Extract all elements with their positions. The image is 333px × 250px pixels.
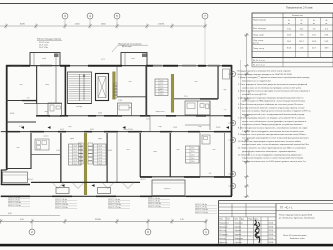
right rooms small walls [185, 124, 210, 126]
top dimension line [0, 25, 207, 27]
svg-text:10-1 1,3м: 10-1 1,3м [39, 47, 48, 49]
svg-text:6.3: 6.3 [325, 28, 328, 30]
wall x200 lower [199, 133, 201, 177]
svg-text:Гудкова: Гудкова [235, 226, 241, 228]
right exterior wall [231, 65, 233, 196]
svg-text:ТП - 4С + 1: ТП - 4С + 1 [280, 206, 293, 209]
svg-text:Количество: Количество [292, 15, 304, 17]
svg-text:03.04: 03.04 [269, 222, 273, 224]
svg-text:20.4: 20.4 [191, 148, 194, 150]
svg-text:прих: прих [98, 138, 102, 140]
svg-text:11.05: 11.05 [98, 113, 102, 115]
svg-text:21.4: 21.4 [191, 151, 194, 153]
svg-text:6. Систему отопления заменить: 6. Систему отопления заменить новой по о… [238, 106, 304, 109]
svg-text:кух: кух [224, 89, 227, 91]
fixtures column lower (bath stack) [79, 143, 84, 146]
svg-text:15.8: 15.8 [99, 160, 102, 162]
lower band walls [30, 133, 31, 169]
svg-text:кухня: кухня [44, 136, 49, 138]
svg-text:Площ. застр.: Площ. застр. [253, 48, 265, 50]
svg-text:ул. Элебесова, Тургенева, Туго: ул. Элебесова, Тургенева, Туголбаева [279, 218, 315, 220]
svg-text:Нач. отд: Нач. отд [219, 230, 226, 232]
svg-text:тамб: тамб [42, 58, 46, 60]
bath tub room center [118, 103, 132, 116]
svg-text:4.3: 4.3 [209, 173, 212, 175]
title block [218, 201, 220, 244]
svg-text:отдельных каналах. Вводно-расп: отдельных каналах. Вводно-распределит. у… [242, 123, 303, 126]
svg-text:Комплекс эскиз: Комплекс эскиз [290, 238, 304, 240]
svg-text:лифт.холл: лифт.холл [156, 110, 165, 113]
svg-text:Директор: Директор [219, 242, 227, 244]
svg-text:3. Замена кровли согласно фас: 3. Замена кровли согласно фасадам по уси… [238, 90, 310, 93]
svg-text:зал: зал [212, 149, 215, 151]
right upper rooms [174, 98, 218, 100]
svg-text:11.2: 11.2 [74, 148, 77, 150]
svg-text:1.494-23. Кухни оборудовать вы: 1.494-23. Кухни оборудовать вытяжными зо… [242, 131, 305, 133]
central rooms x117-147 [116, 66, 118, 96]
svg-text:зал: зал [176, 149, 179, 151]
svg-text:5. Плиты балконов усилить обо: 5. Плиты балконов усилить обоймами из ст… [238, 103, 304, 106]
svg-text:22.4: 22.4 [191, 154, 194, 156]
right bath cluster [185, 101, 210, 115]
svg-text:кор: кор [45, 111, 48, 113]
svg-text:зал: зал [126, 149, 129, 151]
sheet bottom border [0, 244, 333, 247]
svg-text:Н.контр: Н.контр [219, 238, 225, 240]
svg-text:6370: 6370 [20, 24, 26, 26]
svg-text:Б: Б [232, 138, 234, 142]
bottom main wall [1, 195, 232, 197]
svg-text:прих: прих [70, 138, 74, 140]
kitchen appliances lower-left [35, 139, 49, 150]
svg-text:12.8: 12.8 [99, 151, 102, 153]
svg-text:последующей штукатуркой по сет: последующей штукатуркой по сетке и окрас… [242, 137, 309, 140]
misc small black marks upper [66, 42, 69, 43]
balcony left [3, 172, 28, 183]
svg-text:13.2: 13.2 [74, 154, 77, 156]
svg-text:зал: зал [128, 81, 131, 83]
svg-text:комплектацию из ПВХ-профилей и: комплектацию из ПВХ-профилей и сталь) не… [242, 100, 306, 103]
svg-text:2.45: 2.45 [56, 150, 60, 152]
svg-text:8.91: 8.91 [325, 35, 329, 37]
svg-text:Реконструкция жилого дома №14: Реконструкция жилого дома №14 [279, 213, 313, 216]
hall x150-172 [149, 116, 151, 131]
wall y100 left room [6, 100, 37, 102]
svg-text:16.2: 16.2 [74, 163, 77, 165]
svg-text:11.45: 11.45 [312, 41, 317, 43]
svg-text:15.2: 15.2 [74, 160, 77, 162]
svg-text:77.5: 77.5 [300, 35, 304, 37]
svg-text:щитах; сети слаботочных систем: щитах; сети слаботочных систем (домофон,… [242, 120, 306, 123]
svg-text:10.1: 10.1 [312, 35, 316, 37]
axis circle 7 [202, 13, 208, 19]
table bottom rows [252, 58, 333, 63]
svg-text:лоджия: лоджия [164, 188, 171, 190]
svg-text:12.0: 12.0 [146, 119, 150, 121]
svg-text:12.05: 12.05 [216, 127, 221, 129]
axis circle 4 [87, 13, 93, 19]
svg-text:спал: спал [45, 84, 49, 86]
svg-text:Лист: Лист [234, 219, 238, 221]
svg-text:Площ. кварт.: Площ. кварт. [253, 34, 265, 36]
bottom axis circle 1 [203, 229, 209, 235]
bottom axis circle 2 [29, 229, 35, 235]
svg-text:11.9: 11.9 [184, 96, 187, 98]
porch box 2 [98, 188, 111, 194]
bottom wall left section [31, 181, 140, 183]
doc code cell [276, 203, 333, 205]
wall x117 lower [116, 133, 118, 182]
notes block [237, 71, 311, 163]
svg-text:2. Окна, фрамуги и балконные: 2. Окна, фрамуги и балконные двери из ме… [238, 83, 307, 86]
svg-text:40.1-4: 40.1-4 [27, 179, 32, 181]
svg-text:зал: зал [16, 147, 19, 149]
elevator shaft [96, 74, 109, 101]
wall x36 upper [36, 66, 37, 104]
left exterior wall [6, 65, 8, 170]
svg-text:тамбур: тамбур [76, 106, 82, 108]
svg-text:уровня шума, машинное помещени: уровня шума, машинное помещение - шумоиз… [242, 151, 297, 153]
svg-text:вводе квартальной сети с погод: вводе квартальной сети с погодозависимой… [242, 113, 305, 116]
svg-text:7.9: 7.9 [27, 98, 30, 100]
svg-text:Отметки относительные, за 0.00: Отметки относительные, за 0.000 принят у… [242, 161, 307, 163]
svg-text:2к: 2к [288, 20, 290, 22]
svg-text:17.0: 17.0 [160, 80, 163, 82]
svg-text:03.04: 03.04 [269, 238, 273, 240]
svg-text:вынести в штробы. Прибор учёта: вынести в штробы. Прибор учёта тепла уст… [242, 111, 311, 113]
wall y176 right [140, 176, 231, 178]
svg-text:17.4: 17.4 [160, 91, 163, 93]
svg-text:8.64: 8.64 [287, 48, 291, 50]
svg-text:17.5: 17.5 [160, 94, 163, 96]
porch box 1 [56, 188, 69, 194]
signatures scribble [254, 220, 260, 243]
svg-text:Субанов: Субанов [235, 242, 242, 244]
svg-text:ГИ отдела: ГИ отдела [219, 234, 227, 236]
svg-text:13.8: 13.8 [99, 154, 102, 156]
svg-text:Жил. площадь: Жил. площадь [253, 28, 266, 30]
svg-text:10.2: 10.2 [74, 145, 77, 147]
svg-text:7. Электропроводку заменить н: 7. Электропроводку заменить на медную с … [238, 116, 305, 119]
svg-text:спал: спал [153, 151, 157, 153]
svg-text:1. Двор и площадки (**) време: 1. Двор и площадки (**) временно выполня… [238, 77, 310, 79]
svg-text:10.8: 10.8 [99, 145, 102, 147]
svg-text:Копылова: Копылова [235, 222, 243, 224]
svg-text:Кв. 5х 1 на эт.: Кв. 5х 1 на эт. [253, 60, 265, 62]
svg-text:5,45: 5,45 [180, 219, 184, 221]
olive wall hall [171, 74, 174, 113]
svg-text:6,08: 6,08 [20, 219, 24, 221]
svg-text:пазогребневых плит, стены обли: пазогребневых плит, стены облицевать кер… [242, 143, 310, 146]
svg-text:21300: 21300 [95, 219, 102, 221]
svg-text:Общая площадь квартир приведен: Общая площадь квартир приведена по СНиП … [237, 74, 293, 76]
svg-text:9.41: 9.41 [325, 41, 329, 43]
svg-text:20.8: 20.8 [287, 35, 291, 37]
svg-text:кор: кор [159, 126, 162, 128]
svg-text:11. Лифты заменить на новые гр: 11. Лифты заменить на новые грузоподъёмн… [238, 147, 306, 150]
svg-text:10. Внутренние перегородки сан: 10. Внутренние перегородки санузлов выпо… [238, 140, 301, 143]
svg-text:5.08: 5.08 [173, 127, 177, 129]
svg-text:23.4: 23.4 [191, 158, 194, 160]
svg-text:Гудкова: Гудкова [235, 234, 241, 236]
olive wall near elevator [113, 72, 116, 100]
svg-text:В: В [232, 121, 234, 125]
wall x140 lower [140, 133, 141, 177]
svg-text:План 4-9 этажного дома: План 4-9 этажного дома [283, 235, 307, 237]
svg-text:14.8: 14.8 [99, 157, 102, 159]
svg-text:Док: Док [241, 219, 244, 221]
wall x55 upper [55, 66, 57, 103]
small bath upper-left [48, 103, 62, 117]
svg-text:отдельными входами согласно сх: отдельными входами согласно схеме благоу… [242, 157, 304, 160]
svg-text:2.98: 2.98 [118, 100, 122, 102]
vestibule room A [30, 53, 60, 66]
top exterior wall [6, 65, 232, 67]
sheet top border [0, 3, 333, 5]
wall x60 lower [60, 133, 61, 182]
area table grid 3 [94, 144, 107, 165]
svg-text:8. Вентиляционные каналы проч: 8. Вентиляционные каналы прочистить, ого… [238, 127, 307, 129]
svg-text:15.1: 15.1 [300, 28, 304, 30]
svg-text:105.7: 105.7 [299, 41, 304, 43]
svg-text:вместимостью на людей 2-9эт.: вместимостью на людей 2-9эт. [242, 80, 272, 83]
svg-text:8.02: 8.02 [90, 129, 94, 131]
svg-text:13470: 13470 [158, 24, 165, 26]
svg-text:кор: кор [69, 126, 72, 128]
svg-text:2б: 2б [300, 20, 302, 22]
svg-text:4.02: 4.02 [60, 129, 64, 131]
exploitation table [252, 13, 333, 58]
svg-text:03.04: 03.04 [269, 234, 273, 236]
right lower fixtures [202, 135, 210, 144]
svg-text:Подп: Подп [248, 219, 252, 221]
svg-text:24.4: 24.4 [191, 161, 194, 163]
svg-text:конс: конс [131, 58, 135, 60]
corridor north wall [6, 121, 36, 123]
area table grid 2 [69, 144, 82, 165]
axis circle 3 [62, 13, 68, 19]
svg-text:17.1: 17.1 [160, 83, 163, 85]
svg-text:16.06: 16.06 [10, 113, 15, 115]
wall y103 [24, 103, 62, 105]
svg-text:26.6: 26.6 [287, 41, 291, 43]
svg-text:объёме 9-ти этаж ДСК-10.: объёме 9-ти этаж ДСК-10. [242, 94, 267, 96]
svg-text:Гудкова: Гудкова [235, 230, 241, 232]
svg-text:Проверил: Проверил [219, 226, 227, 228]
svg-text:7.05: 7.05 [287, 28, 291, 30]
svg-text:кор: кор [129, 107, 132, 109]
svg-text:Néфедова: Néфедова [235, 237, 244, 240]
svg-text:11.8: 11.8 [99, 148, 102, 150]
stairwell [65, 66, 67, 116]
concierge room B [121, 53, 147, 66]
wall x225 lower [224, 133, 226, 177]
svg-text:12. Квартиры 1-го этажа оборуд: 12. Квартиры 1-го этажа оборудовать прик… [238, 154, 303, 156]
door swings bottom [52, 182, 58, 188]
right vertical dimension line [246, 33, 248, 198]
svg-text:03.04: 03.04 [269, 242, 273, 244]
svg-text:03.04: 03.04 [269, 230, 273, 232]
svg-text:4,90: 4,90 [8, 213, 12, 215]
svg-text:Площадь подсчитана обмером без: Площадь подсчитана обмером без учёта вну… [237, 71, 291, 73]
svg-text:зал: зал [19, 84, 22, 86]
left lower protrusion [1, 169, 7, 171]
svg-text:17.0: 17.0 [101, 59, 105, 61]
wall x170 lower [170, 133, 171, 177]
svg-text:Вход 17.06: Вход 17.06 [123, 129, 132, 131]
toilet symbol [206, 104, 209, 109]
svg-text:зал: зал [194, 81, 197, 83]
svg-text:38.9: 38.9 [325, 48, 329, 50]
svg-text:4. Двери входные в подъезд и: 4. Двери входные в подъезд и квартиры вы… [238, 96, 304, 99]
svg-text:кор: кор [199, 126, 202, 128]
svg-text:3.0: 3.0 [313, 28, 316, 30]
svg-text:6.06: 6.06 [19, 126, 23, 128]
svg-text:6.08: 6.08 [108, 150, 112, 152]
svg-text:40.1-2: 40.1-2 [140, 179, 145, 181]
svg-text:12.2: 12.2 [74, 151, 77, 153]
svg-text:3б: 3б [325, 20, 327, 22]
svg-text:3к: 3к [313, 20, 315, 22]
svg-text:Кв. 5х 2 на эт.: Кв. 5х 2 на эт. [253, 65, 265, 67]
svg-text:41.9: 41.9 [312, 48, 316, 50]
olive wall lower [84, 133, 87, 195]
bottom axis circle 6 [145, 229, 151, 235]
bottom dimension line small [0, 214, 60, 216]
svg-text:(кв. м ): (кв. м ) [253, 43, 259, 45]
svg-text:16.8: 16.8 [99, 163, 102, 165]
svg-text:1.05: 1.05 [300, 48, 304, 50]
corridor south wall [1, 131, 232, 133]
loggia center-right [152, 180, 185, 196]
svg-text:Б: Б [232, 172, 234, 176]
svg-text:Кол: Кол [227, 219, 230, 221]
svg-text:Показатели кв. 2-9 этаж: Показатели кв. 2-9 этаж [286, 7, 313, 10]
vent blocks column [114, 83, 117, 86]
svg-text:17.2: 17.2 [160, 86, 163, 88]
svg-text:с.у: с.у [224, 109, 226, 111]
svg-text:холл: холл [158, 89, 162, 91]
svg-text:А: А [232, 184, 234, 188]
svg-text:14.2: 14.2 [74, 157, 77, 159]
svg-text:03.04: 03.04 [269, 226, 273, 228]
area table grid 4 [186, 146, 200, 163]
entrance arrows [48, 126, 51, 129]
area table grid 1 [155, 79, 168, 96]
letter axis circles [230, 71, 235, 76]
svg-text:замена оконных по объёмам заст: замена оконных по объёмам застройщика со… [242, 86, 302, 89]
wall x107 lower [107, 133, 108, 182]
svg-text:Наименование: Наименование [253, 20, 266, 22]
svg-text:Разработал: Разработал [219, 222, 229, 224]
svg-text:9. Наружные стены утеплить ми: 9. Наружные стены утеплить минераловатны… [238, 134, 306, 136]
axis circle 5 [114, 13, 120, 19]
